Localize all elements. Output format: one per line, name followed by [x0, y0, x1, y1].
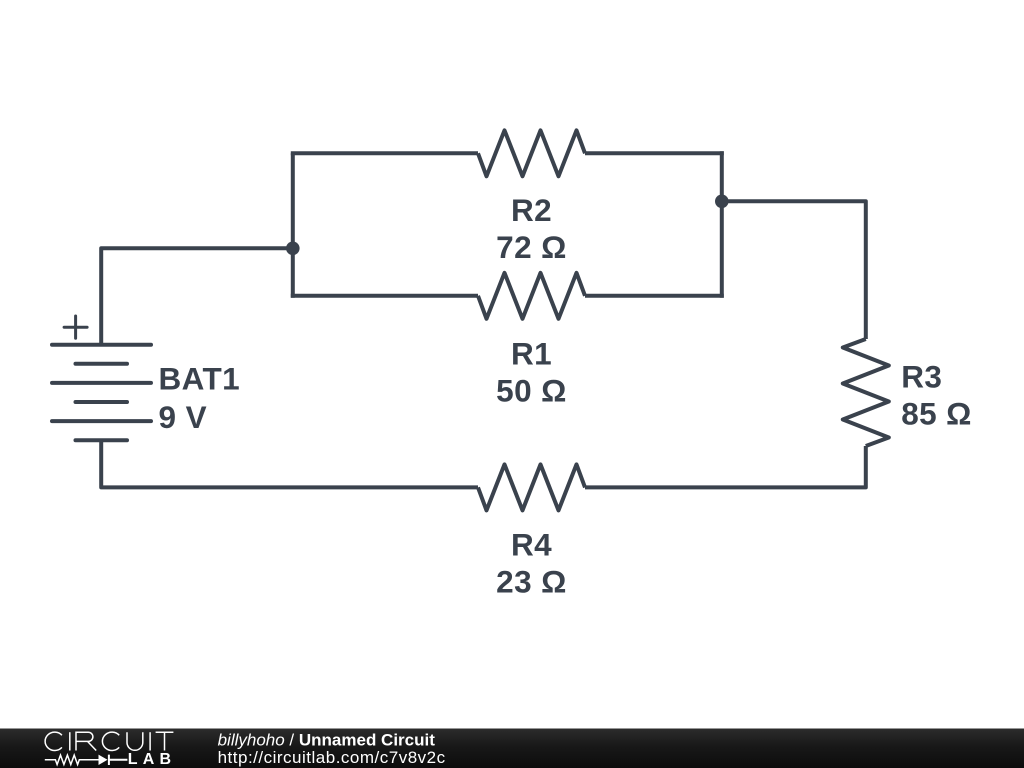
resistor R4 [478, 464, 585, 510]
wire R2 right terminal to top-right corner [585, 151, 724, 155]
wire R3 bottom terminal down and left to R4 right terminal [585, 446, 866, 487]
resistor R1 [478, 273, 585, 319]
wire right branch corner up to node B [720, 201, 724, 297]
svg-text:72 Ω: 72 Ω [496, 229, 567, 265]
wire bottom-left corner to R1 left terminal [291, 294, 478, 298]
battery BAT1 plates [52, 345, 151, 441]
svg-text:LAB: LAB [128, 751, 176, 768]
svg-text:23 Ω: 23 Ω [496, 564, 567, 600]
CircuitLab logo wordmark CIRCUIT (thin stroke letterforms) [45, 732, 173, 750]
svg-text:R3: R3 [901, 359, 942, 395]
wire R1 right terminal to right branch corner [585, 294, 724, 298]
svg-text:R1: R1 [511, 336, 552, 372]
svg-text:BAT1: BAT1 [159, 360, 241, 396]
svg-text:9 V: 9 V [159, 399, 207, 435]
svg-text:50 Ω: 50 Ω [496, 373, 567, 409]
junction node A [286, 242, 300, 256]
wire top-left corner to R2 left terminal [291, 151, 478, 155]
wire top-right corner down to node B [720, 151, 724, 201]
wire battery positive terminal up to node A [101, 248, 291, 344]
svg-text:billyhoho / Unnamed Circuit: billyhoho / Unnamed Circuit [218, 730, 436, 749]
CircuitLab logo schematic flourish: diode and wire [99, 755, 128, 765]
svg-text:R4: R4 [511, 527, 552, 563]
wire node B to R3 top terminal [720, 201, 866, 339]
resistor R2 [478, 130, 585, 176]
wire node A down to R1 branch bottom-left corner [291, 246, 295, 297]
junction node B [715, 195, 729, 209]
battery BAT1 positive terminal plus sign [64, 316, 87, 338]
svg-text:85 Ω: 85 Ω [901, 396, 972, 432]
svg-text:R2: R2 [511, 192, 552, 228]
wire R4 left terminal to battery negative terminal [101, 440, 478, 487]
svg-text:http://circuitlab.com/c7v8v2c: http://circuitlab.com/c7v8v2c [218, 748, 446, 767]
resistor R3 [843, 339, 889, 446]
wire node A up to R2 branch top-left corner [291, 153, 295, 250]
CircuitLab logo schematic flourish: resistor squiggle [45, 755, 99, 764]
